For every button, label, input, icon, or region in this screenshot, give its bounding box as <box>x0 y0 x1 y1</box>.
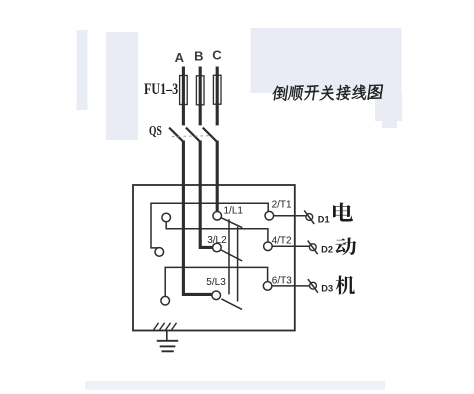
terminal 2/T1 <box>265 200 292 221</box>
terminal 4/T2 <box>264 236 292 251</box>
connector D3 <box>308 279 318 293</box>
connector D1 <box>304 210 314 224</box>
pivot contact c2 <box>155 248 164 257</box>
switch QS pole A blade <box>169 128 183 142</box>
svg-text:4/T2: 4/T2 <box>272 236 292 247</box>
svg-text:3/L2: 3/L2 <box>207 235 227 246</box>
svg-text:A: A <box>175 50 185 65</box>
svg-text:B: B <box>194 49 203 64</box>
wire B to 3/L2 <box>200 141 212 248</box>
svg-text:QS: QS <box>149 123 162 138</box>
wire node c3 to 6/T3 <box>165 267 267 296</box>
switch QS linkage dashed <box>172 135 213 138</box>
svg-text:2/T1: 2/T1 <box>272 200 292 211</box>
svg-text:C: C <box>212 48 222 63</box>
linkage bar 1 <box>228 219 230 294</box>
fuse FU2 <box>196 76 204 105</box>
ground hatching <box>154 323 177 330</box>
pivot contact c3 <box>161 296 170 305</box>
wire A to 5/L3 <box>183 141 211 295</box>
switch QS pole B blade <box>186 128 200 142</box>
terminal 6/T3 <box>263 275 292 290</box>
wire A fuse to switch <box>182 105 185 126</box>
fuse FU3 <box>213 75 221 104</box>
terminal 1/L1 <box>213 206 244 221</box>
label motor char 机 <box>336 275 355 294</box>
svg-text:6/T3: 6/T3 <box>272 275 292 286</box>
contact blade 2 <box>221 250 242 261</box>
svg-text:D3: D3 <box>321 283 333 293</box>
switch enclosure box <box>133 185 295 331</box>
contact blade 3 <box>221 299 242 310</box>
linkage bar 2 <box>237 227 239 302</box>
svg-text:1/L1: 1/L1 <box>224 206 244 217</box>
wire terminal row 1 output <box>274 215 306 217</box>
pivot contact c1 <box>162 213 171 222</box>
fuse FU1 <box>180 76 188 105</box>
wire terminal row 3 output <box>272 285 309 287</box>
wire C to 1/L1 <box>216 141 219 212</box>
label motor char 动 <box>336 238 357 256</box>
svg-text:5/L3: 5/L3 <box>206 277 226 288</box>
wire terminal row 2 output <box>273 245 310 247</box>
svg-text:D1: D1 <box>318 214 330 224</box>
title 倒顺开关接线图 <box>272 85 384 101</box>
wire C input stub <box>216 67 219 106</box>
wire node c2 to 2/T1 <box>151 203 268 248</box>
svg-text:FU1–3: FU1–3 <box>144 81 178 98</box>
contact blade 1 <box>221 218 242 228</box>
switch QS pole C blade <box>203 128 217 142</box>
wire A input stub <box>182 67 185 106</box>
terminal 3/L2 <box>207 235 227 252</box>
label motor char 电 <box>333 202 353 221</box>
wire C fuse to switch <box>216 104 219 125</box>
wire B fuse to switch <box>199 105 202 126</box>
terminal 5/L3 <box>206 277 226 299</box>
connector D2 <box>308 241 318 255</box>
ground <box>157 331 178 352</box>
svg-text:D2: D2 <box>321 245 333 255</box>
wire node c1 to 4/T2 <box>166 222 268 242</box>
wire B input stub <box>199 67 202 106</box>
